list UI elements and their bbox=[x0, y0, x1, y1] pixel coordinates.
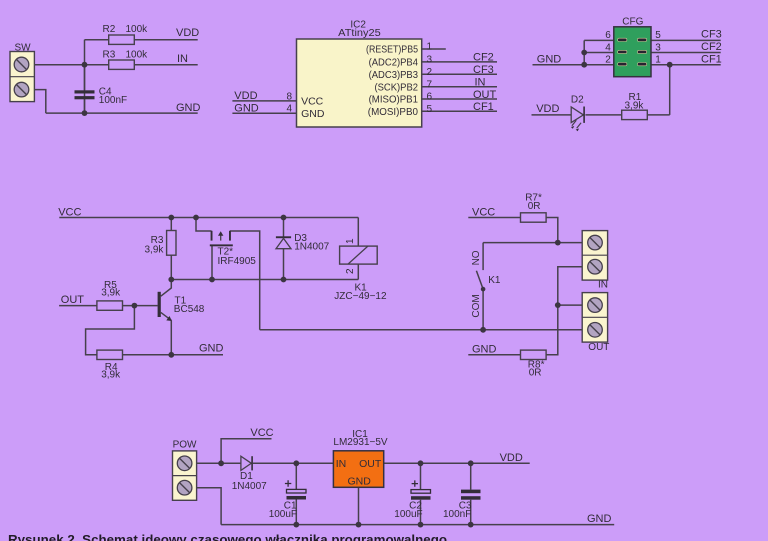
wire R1 to CFG pin 1 bbox=[669, 65, 671, 115]
transistor T1 BC548 bbox=[158, 292, 205, 321]
svg-text:8: 8 bbox=[286, 91, 292, 102]
wire VCC to relay coil pin 1 bbox=[357, 218, 359, 247]
IC2 pin 3 wire net CF2 bbox=[422, 61, 497, 63]
junction node GND rail C1 bbox=[293, 522, 299, 528]
svg-text:100nF: 100nF bbox=[443, 509, 471, 520]
capacitor C3 100nF bbox=[443, 490, 481, 520]
wire T1 emitter vertical bbox=[170, 320, 172, 355]
connector POW bbox=[173, 439, 198, 500]
resistor R3 3,9k vertical bbox=[144, 231, 176, 256]
svg-text:(RESET)PB5: (RESET)PB5 bbox=[366, 44, 418, 56]
wire D3 leads bbox=[283, 218, 285, 280]
junction node R7/NO bbox=[555, 240, 561, 246]
IC IC2 ATtiny25 bbox=[297, 19, 422, 127]
wire VCC rail bbox=[59, 217, 358, 219]
connector IN bbox=[582, 231, 608, 291]
svg-text:OUT: OUT bbox=[473, 89, 497, 101]
junction node bbox=[82, 110, 88, 116]
svg-text:BC548: BC548 bbox=[174, 304, 205, 315]
svg-text:CF1: CF1 bbox=[701, 53, 722, 65]
wire relay contact blade bbox=[476, 271, 483, 289]
svg-text:3: 3 bbox=[655, 42, 661, 53]
diode D1 1N4007 bbox=[232, 456, 267, 492]
svg-text:7: 7 bbox=[427, 79, 433, 90]
IC IC1 LM2931-5V regulator bbox=[333, 429, 388, 488]
svg-text:R3: R3 bbox=[103, 50, 116, 61]
svg-text:4: 4 bbox=[605, 42, 611, 53]
svg-text:100uF: 100uF bbox=[269, 509, 297, 520]
svg-text:GND: GND bbox=[587, 513, 612, 525]
svg-text:2: 2 bbox=[605, 55, 611, 66]
resistor R2 100k bbox=[103, 24, 149, 44]
svg-text:(ADC2)PB4: (ADC2)PB4 bbox=[369, 57, 419, 69]
wire CFG pin 1 net CF1 bbox=[651, 64, 721, 66]
svg-text:100k: 100k bbox=[126, 24, 149, 35]
wire IC1 out to VDD bbox=[384, 462, 530, 464]
svg-text:VDD: VDD bbox=[500, 452, 523, 464]
junction node CFG bus row2 bbox=[581, 50, 587, 56]
svg-text:3: 3 bbox=[427, 55, 433, 66]
junction node D3 top bbox=[281, 215, 287, 221]
IC2 pin 8 wire bbox=[232, 100, 296, 102]
junction node C3 top bbox=[468, 460, 474, 466]
svg-text:GND: GND bbox=[472, 344, 497, 356]
resistor R8* 0R bbox=[521, 350, 547, 378]
junction node OUT top bus bbox=[555, 302, 561, 308]
svg-text:1: 1 bbox=[427, 42, 433, 53]
svg-text:CFG: CFG bbox=[622, 17, 643, 28]
wire C3 leads bbox=[470, 463, 472, 524]
svg-text:1: 1 bbox=[655, 55, 661, 66]
relay switch K1 contact bbox=[471, 250, 501, 317]
wire vertical bus x84.5 bbox=[84, 40, 86, 113]
connector CFG pin header bbox=[614, 17, 651, 77]
svg-text:0R: 0R bbox=[529, 367, 542, 378]
transistor T2 IRF4905 P-MOSFET bbox=[210, 231, 256, 267]
wire CFG pin 5 net CF3 bbox=[651, 39, 721, 41]
svg-text:1N4007: 1N4007 bbox=[232, 481, 267, 492]
wire R5 to T1 base bbox=[123, 305, 158, 307]
svg-text:IN: IN bbox=[598, 279, 608, 290]
wire relay contact NO fixed bbox=[482, 243, 484, 271]
junction node gate row D3 bbox=[281, 277, 287, 283]
wire VDD row leads bbox=[85, 39, 198, 41]
wire base node to R4 loop bbox=[86, 306, 135, 355]
junction node gate row T2 bbox=[209, 277, 215, 283]
wire D1 cathode to IC1 bbox=[253, 462, 333, 464]
wire C4 leads bbox=[84, 65, 86, 113]
svg-text:CF2: CF2 bbox=[701, 41, 722, 53]
wire IN row leads bbox=[85, 64, 198, 66]
svg-text:3,9k: 3,9k bbox=[625, 100, 645, 111]
wire C1 leads bbox=[295, 463, 297, 524]
svg-text:OUT: OUT bbox=[359, 458, 382, 470]
svg-text:Rysunek 2. Schemat ideowy czas: Rysunek 2. Schemat ideowy czasowego włąc… bbox=[8, 532, 447, 541]
junction node R3 top bbox=[168, 215, 174, 221]
junction node GND rail C3 bbox=[468, 522, 474, 528]
capacitor C2 100uF bbox=[394, 480, 430, 520]
svg-text:3,9k: 3,9k bbox=[144, 245, 164, 256]
junction node T2 source bbox=[193, 215, 199, 221]
svg-text:VCC: VCC bbox=[472, 206, 495, 218]
junction node GND rail IC1 bbox=[356, 522, 362, 528]
wire R7 right to NO row bbox=[546, 218, 558, 243]
svg-text:R2: R2 bbox=[103, 24, 116, 35]
wire R1 right lead bbox=[647, 114, 669, 116]
svg-text:GND: GND bbox=[234, 103, 258, 115]
svg-text:(MISO)PB1: (MISO)PB1 bbox=[369, 94, 419, 106]
svg-text:IRF4905: IRF4905 bbox=[218, 256, 257, 267]
svg-text:2: 2 bbox=[427, 67, 433, 78]
svg-text:NO: NO bbox=[471, 250, 482, 265]
junction node gate row R3 bbox=[168, 277, 174, 283]
IC2 pin 7 wire net IN bbox=[422, 86, 497, 88]
svg-text:5: 5 bbox=[427, 104, 433, 115]
wire OUT to R5 bbox=[59, 305, 97, 307]
IC2 pin 4 wire bbox=[232, 112, 296, 114]
svg-text:VDD: VDD bbox=[176, 27, 199, 39]
wire IN bottom to bus bbox=[546, 267, 582, 355]
wire relay contact line to OUT bottom bbox=[260, 329, 583, 331]
junction node COM row bbox=[480, 327, 486, 333]
resistor R3 100k bbox=[103, 50, 149, 70]
resistor R7* 0R bbox=[521, 192, 547, 222]
wire C2 leads bbox=[420, 463, 422, 524]
svg-text:LM2931−5V: LM2931−5V bbox=[333, 437, 388, 448]
wire R3 leads vertical bbox=[170, 218, 172, 280]
svg-text:(MOSI)PB0: (MOSI)PB0 bbox=[368, 106, 418, 118]
svg-text:GND: GND bbox=[348, 476, 372, 488]
svg-text:D2: D2 bbox=[571, 95, 584, 106]
wire CFG pin 3 net CF2 bbox=[651, 52, 721, 54]
IC2 pin 5 wire net CF1 bbox=[422, 110, 497, 112]
svg-text:OUT: OUT bbox=[61, 294, 85, 306]
svg-text:6: 6 bbox=[427, 92, 433, 103]
svg-text:GND: GND bbox=[301, 108, 325, 120]
resistor R5 3,9k bbox=[97, 280, 123, 310]
svg-text:CF3: CF3 bbox=[473, 64, 494, 76]
wire SW top terminal to junction bbox=[34, 64, 84, 66]
svg-text:CF1: CF1 bbox=[473, 101, 494, 113]
wire T2 drain lead to relay contact line bbox=[230, 231, 260, 330]
resistor R4 3,9k bbox=[97, 350, 123, 381]
IC2 pin 1 wire bbox=[422, 48, 446, 50]
wire CFG left bus bbox=[583, 40, 585, 64]
svg-text:(SCK)PB2: (SCK)PB2 bbox=[375, 82, 419, 94]
wire R4 to GND row bbox=[123, 354, 224, 356]
svg-text:GND: GND bbox=[199, 342, 224, 354]
junction node VCC/D1 bbox=[218, 460, 224, 466]
wire GND rail bbox=[221, 524, 614, 526]
capacitor C4 100nF bbox=[75, 86, 128, 106]
IC2 pin 6 wire net OUT bbox=[422, 98, 497, 100]
svg-text:(ADC3)PB3: (ADC3)PB3 bbox=[369, 69, 419, 81]
wire VCC stub bbox=[221, 439, 271, 464]
capacitor C1 100uF bbox=[269, 480, 306, 520]
junction node emitter GND bbox=[168, 352, 174, 358]
wire NO row to connector IN bbox=[483, 242, 582, 244]
wire OUT top to bus bbox=[558, 304, 582, 306]
svg-text:IN: IN bbox=[177, 53, 188, 65]
svg-text:100k: 100k bbox=[126, 50, 149, 61]
svg-text:CF2: CF2 bbox=[473, 52, 494, 64]
connector OUT bbox=[582, 293, 609, 353]
svg-text:3,9k: 3,9k bbox=[101, 288, 121, 299]
LED D2 bbox=[571, 95, 585, 132]
wire COM vertical bbox=[482, 289, 484, 330]
wire GND to CFG pin 2 bbox=[533, 64, 614, 66]
svg-text:IN: IN bbox=[475, 77, 486, 89]
svg-text:2: 2 bbox=[345, 268, 356, 274]
svg-text:VCC: VCC bbox=[301, 96, 324, 108]
svg-text:ATtiny25: ATtiny25 bbox=[338, 28, 381, 39]
svg-text:JZC−49−12: JZC−49−12 bbox=[334, 291, 387, 302]
wire POW top terminal row bbox=[197, 462, 241, 464]
wire T1 collector bbox=[161, 280, 172, 297]
wire CFG pin 4 stub bbox=[584, 52, 614, 54]
diode D3 1N4007 bbox=[276, 233, 330, 253]
svg-text:VCC: VCC bbox=[250, 427, 273, 439]
wire IC1 GND pin bbox=[358, 487, 360, 524]
wire VDD to D2 anode bbox=[532, 114, 572, 116]
connector SW bbox=[10, 43, 34, 102]
wire gate node row bbox=[171, 279, 358, 281]
junction node base/R4 bbox=[132, 303, 138, 309]
wire T2 source lead bbox=[196, 218, 212, 232]
junction node CF1/R1 bbox=[667, 62, 673, 68]
svg-text:1N4007: 1N4007 bbox=[294, 242, 329, 253]
svg-text:VCC: VCC bbox=[58, 206, 81, 218]
wire GND row bbox=[46, 112, 198, 114]
svg-text:GND: GND bbox=[537, 53, 562, 65]
relay coil K1 JZC-49-12 bbox=[334, 238, 387, 302]
wire CFG pin 6 stub bbox=[584, 39, 614, 41]
wire T2 gate lead bbox=[211, 245, 213, 279]
svg-text:4: 4 bbox=[286, 104, 292, 115]
svg-text:SW: SW bbox=[15, 43, 32, 54]
IC2 pin 2 wire net CF3 bbox=[422, 73, 497, 75]
junction node C1 top bbox=[293, 460, 299, 466]
wire VCC to R7 bbox=[468, 217, 520, 219]
wire SW bottom terminal to GND row bbox=[34, 90, 45, 114]
junction node CFG bus row3 bbox=[581, 62, 587, 68]
svg-text:POW: POW bbox=[173, 439, 197, 450]
svg-text:0R: 0R bbox=[528, 201, 541, 212]
svg-text:VDD: VDD bbox=[234, 90, 257, 102]
svg-text:5: 5 bbox=[655, 30, 661, 41]
resistor R1 3,9k bbox=[622, 92, 648, 120]
wire POW bottom to GND rail bbox=[197, 488, 222, 525]
wire GND to R8 bbox=[468, 354, 520, 356]
svg-text:CF3: CF3 bbox=[701, 29, 722, 41]
svg-text:1: 1 bbox=[345, 238, 356, 244]
svg-text:OUT: OUT bbox=[588, 342, 609, 353]
svg-text:100nF: 100nF bbox=[99, 95, 127, 106]
svg-text:6: 6 bbox=[605, 30, 611, 41]
wire D2 cathode to R1 bbox=[585, 114, 621, 116]
junction node C2 top bbox=[418, 460, 424, 466]
wire relay coil pin 2 bbox=[357, 264, 359, 279]
svg-text:100uF: 100uF bbox=[394, 509, 422, 520]
svg-text:IN: IN bbox=[336, 458, 347, 470]
svg-text:VDD: VDD bbox=[536, 103, 559, 115]
svg-text:3,9k: 3,9k bbox=[101, 370, 121, 381]
svg-text:K1: K1 bbox=[488, 275, 501, 286]
junction node GND rail C2 bbox=[418, 522, 424, 528]
svg-text:COM: COM bbox=[471, 294, 482, 317]
junction node bbox=[82, 62, 88, 68]
svg-text:GND: GND bbox=[176, 102, 201, 114]
